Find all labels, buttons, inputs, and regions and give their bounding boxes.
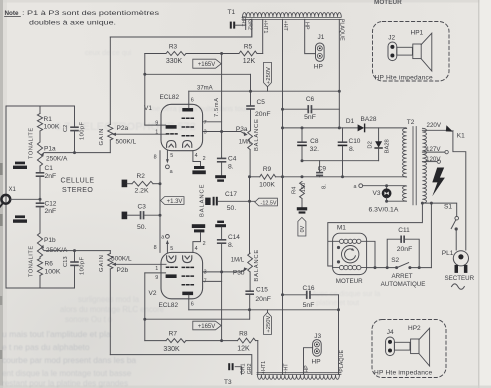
svg-text:me sera par la suite dans tous: me sera par la suite dans tous bbox=[150, 104, 249, 113]
svg-text:6: 6 bbox=[191, 97, 194, 103]
ground V1 cathode bbox=[194, 166, 204, 169]
wire heater 6.3V bottom bbox=[387, 200, 406, 202]
tube V1 envelope bbox=[161, 104, 203, 150]
svg-text:330K: 330K bbox=[166, 58, 183, 65]
wire selector to K1 drop bbox=[453, 131, 466, 251]
svg-text:D2: D2 bbox=[368, 141, 374, 148]
T1 tap GR2 bbox=[251, 19, 253, 37]
svg-text:P1a: P1a bbox=[44, 146, 56, 153]
svg-text:R6: R6 bbox=[45, 260, 54, 267]
svg-text:330K: 330K bbox=[163, 346, 180, 353]
flag +250V upper bbox=[264, 62, 272, 86]
svg-text:a: a bbox=[161, 235, 164, 241]
svg-text:C16: C16 bbox=[303, 285, 315, 292]
svg-text:C4: C4 bbox=[228, 155, 237, 162]
svg-text:+HT: +HT bbox=[283, 363, 289, 374]
V2 triode plate bbox=[166, 274, 177, 278]
V2 pin 6 lead bbox=[188, 295, 190, 310]
svg-text:T3: T3 bbox=[224, 379, 232, 386]
wire plate rail upper bbox=[189, 90, 339, 92]
svg-text:courbe par mod present dan: courbe par mod present dans les ba bbox=[2, 355, 136, 365]
svg-text:R7: R7 bbox=[169, 331, 178, 338]
svg-text:P1b: P1b bbox=[44, 237, 56, 244]
wire tap 220V bbox=[422, 129, 447, 131]
svg-text:C5: C5 bbox=[257, 99, 266, 106]
wire R3-R5 rail bbox=[145, 53, 166, 55]
resistor R4 bbox=[300, 182, 305, 199]
wire feedback lower to T3 GR2 bbox=[110, 355, 252, 375]
ground R4 bbox=[297, 207, 307, 210]
capacitor C4 bbox=[221, 156, 223, 158]
T3 tap HP to J3 bbox=[304, 348, 313, 375]
svg-text:2.2K: 2.2K bbox=[135, 188, 149, 195]
capacitor C11 box bbox=[387, 239, 400, 267]
switch S1 bbox=[455, 216, 459, 220]
selector contact K1 bbox=[446, 125, 453, 131]
flag +1.3V bbox=[161, 197, 184, 205]
T1 tap +HT1 bbox=[262, 19, 264, 53]
svg-text:+1.3V: +1.3V bbox=[167, 199, 183, 205]
svg-text:20nF: 20nF bbox=[255, 296, 271, 303]
svg-text:P2b: P2b bbox=[117, 267, 129, 274]
svg-text:: P1 à P3 sont des potentiomèt: : P1 à P3 sont des potentiomètres bbox=[22, 10, 159, 17]
diode D2 bbox=[378, 128, 380, 141]
svg-text:MOTEUR: MOTEUR bbox=[374, 0, 402, 6]
potentiometer P1a bbox=[37, 142, 42, 166]
svg-text:7: 7 bbox=[204, 120, 207, 126]
svg-text:220V: 220V bbox=[427, 122, 442, 129]
wire rectifier line D1 bbox=[283, 127, 358, 129]
svg-text:J1: J1 bbox=[318, 34, 325, 41]
svg-text:GR2: GR2 bbox=[247, 19, 253, 30]
resistor R5 bbox=[239, 51, 257, 56]
svg-text:MOTEUR: MOTEUR bbox=[336, 278, 363, 285]
svg-text:+250V: +250V bbox=[266, 67, 272, 84]
page edge shading bbox=[0, 0, 3, 388]
wire bias rail bbox=[250, 176, 260, 178]
svg-text:STEREO: STEREO bbox=[62, 187, 93, 194]
svg-text:1M/L: 1M/L bbox=[231, 258, 245, 264]
capacitor C14 bbox=[221, 227, 223, 239]
svg-text:GAIN: GAIN bbox=[99, 128, 105, 146]
svg-text:+250V: +250V bbox=[266, 316, 272, 333]
svg-text:32.: 32. bbox=[310, 146, 320, 153]
svg-text:P3b: P3b bbox=[233, 270, 245, 277]
svg-text:100K: 100K bbox=[259, 182, 275, 189]
speaker horn HP2 bbox=[394, 342, 410, 350]
V2 triode grid bbox=[167, 266, 178, 268]
capacitor C16 bbox=[283, 294, 307, 296]
V1 pentode grids bbox=[182, 117, 193, 119]
lightning bolt bbox=[432, 168, 445, 197]
svg-text:100K: 100K bbox=[44, 124, 60, 131]
svg-text:1M/L: 1M/L bbox=[239, 140, 253, 146]
ground tab lower near X1 bbox=[15, 215, 25, 218]
ground C4 bbox=[215, 175, 226, 178]
speaker box HP1 bbox=[373, 22, 450, 82]
svg-text:C8: C8 bbox=[310, 138, 319, 145]
svg-text:TONALITE: TONALITE bbox=[28, 127, 34, 159]
T3 tap GR1 bbox=[235, 367, 241, 375]
svg-text:C9: C9 bbox=[318, 165, 327, 172]
svg-text:J2: J2 bbox=[388, 34, 395, 41]
svg-text:5nF: 5nF bbox=[303, 302, 315, 309]
svg-text:J3: J3 bbox=[314, 333, 321, 340]
svg-text:C14: C14 bbox=[228, 234, 240, 241]
svg-text:C6: C6 bbox=[306, 96, 315, 103]
svg-text:50.: 50. bbox=[137, 224, 147, 231]
capacitor C12 bbox=[39, 197, 41, 203]
svg-text:5: 5 bbox=[170, 153, 173, 159]
svg-text:SECTEUR: SECTEUR bbox=[445, 275, 475, 282]
svg-text:50.: 50. bbox=[227, 205, 237, 212]
svg-text:BA28: BA28 bbox=[361, 116, 377, 123]
T1 tap HP to J1 bbox=[305, 19, 316, 53]
svg-text:PL1: PL1 bbox=[442, 250, 454, 257]
svg-text:C10: C10 bbox=[349, 138, 361, 145]
svg-text:J4: J4 bbox=[387, 329, 394, 336]
wire P2b wiper to V2 pin 1 bbox=[116, 263, 166, 265]
svg-text:8: 8 bbox=[154, 155, 157, 161]
svg-text:R8: R8 bbox=[239, 331, 248, 338]
svg-text:u mais tout l'amplitude et: u mais tout l'amplitude et pla bbox=[2, 329, 111, 339]
svg-text:5: 5 bbox=[170, 246, 173, 252]
V2 pentode plate bbox=[182, 292, 193, 296]
svg-text:C1: C1 bbox=[45, 165, 54, 172]
wire P2a wiper to V1 pin 1 bbox=[116, 133, 166, 135]
wire screen vertical V2 bbox=[221, 281, 223, 340]
resistor R3 bbox=[166, 52, 186, 56]
potentiometer P2a bbox=[109, 37, 111, 125]
wire V1 pin 9 bbox=[145, 124, 166, 126]
svg-text:ent disque la le montage: ent disque la le montage tout basse bbox=[2, 369, 132, 378]
wire doubler return line bbox=[302, 160, 379, 162]
svg-text:C11: C11 bbox=[398, 227, 410, 234]
svg-text:C15: C15 bbox=[256, 286, 268, 293]
svg-text:3: 3 bbox=[204, 270, 207, 276]
ground C14 bbox=[217, 221, 224, 223]
svg-text:+HT: +HT bbox=[282, 21, 288, 32]
potentiometer P2b bbox=[109, 251, 111, 254]
wire coupling line upper bbox=[145, 73, 251, 75]
connector J4 bbox=[386, 337, 395, 356]
wire V2 triode plate drop bbox=[144, 273, 146, 341]
svg-text:7: 7 bbox=[204, 279, 207, 285]
capacitor C10 bbox=[342, 128, 344, 141]
wire motor feed bbox=[328, 203, 423, 266]
svg-text:doubles à axe unique.: doubles à axe unique. bbox=[29, 20, 116, 27]
svg-text:sonore Ou t o: sonore Ou t o bbox=[65, 315, 113, 324]
svg-text:127V: 127V bbox=[426, 146, 441, 153]
svg-text:C17: C17 bbox=[225, 191, 237, 198]
svg-text:12K: 12K bbox=[243, 58, 256, 65]
left edge marks bbox=[0, 163, 3, 175]
capacitor C17 bbox=[205, 198, 210, 205]
svg-text:V3: V3 bbox=[373, 190, 381, 197]
transformer T1 winding bbox=[243, 12, 342, 16]
T1 grid capacitor bbox=[230, 22, 232, 29]
svg-text:C2: C2 bbox=[63, 125, 69, 132]
svg-text:HP: HP bbox=[304, 365, 310, 373]
V1 triode grid bbox=[167, 133, 178, 135]
wire tap 120V bbox=[422, 161, 437, 163]
svg-text:X1: X1 bbox=[9, 187, 17, 193]
wire motor top-right to rail bbox=[367, 241, 375, 267]
resistor R7 bbox=[166, 339, 186, 343]
wire R7-R8 rail bbox=[145, 340, 166, 342]
V1 pin 5 heater lead bbox=[166, 151, 168, 160]
wire screen vertical V1 bbox=[221, 54, 223, 158]
svg-text:BA28: BA28 bbox=[385, 139, 391, 153]
svg-text:+165V: +165V bbox=[198, 62, 216, 68]
T2 heater winding bbox=[403, 186, 407, 201]
resistor R8 bbox=[238, 338, 256, 343]
svg-text:R3: R3 bbox=[169, 44, 178, 51]
motor M1 bbox=[333, 233, 367, 274]
svg-text:T1: T1 bbox=[228, 9, 236, 16]
svg-text:20nF: 20nF bbox=[255, 111, 271, 118]
T2 primary winding bbox=[422, 128, 426, 203]
wire heater 6.3V top bbox=[363, 185, 406, 187]
svg-text:4: 4 bbox=[195, 153, 198, 159]
transformer T2 core bbox=[412, 127, 414, 205]
svg-text:9: 9 bbox=[155, 121, 158, 127]
svg-text:e t ne pas du alphabeto: e t ne pas du alphabeto bbox=[2, 342, 90, 352]
wire X1 to network bbox=[11, 198, 41, 200]
ground V2 cathode bbox=[192, 224, 205, 228]
svg-text:2: 2 bbox=[203, 156, 206, 162]
svg-text:2: 2 bbox=[203, 241, 206, 247]
svg-text:500K/L: 500K/L bbox=[116, 139, 137, 146]
svg-text:C3: C3 bbox=[138, 203, 147, 210]
flag +165V lower bbox=[193, 321, 221, 330]
svg-text:R9: R9 bbox=[263, 166, 272, 173]
svg-text:0V: 0V bbox=[300, 225, 306, 232]
V1 pentode plate bbox=[182, 108, 193, 112]
capacitor C5 and potentiometer P3a column bbox=[250, 74, 252, 105]
svg-text:12K: 12K bbox=[237, 345, 250, 352]
svg-text:HP: HP bbox=[304, 22, 310, 30]
svg-text:C13: C13 bbox=[63, 256, 69, 267]
wire input enclosure bbox=[6, 106, 75, 288]
V2 cathodes bbox=[167, 256, 176, 263]
potentiometer P3b and capacitor C15 column bbox=[249, 177, 251, 253]
capacitor C1 bbox=[39, 166, 41, 172]
svg-text:BALANCE: BALANCE bbox=[200, 184, 206, 217]
V2 pin 5 heater lead bbox=[166, 244, 168, 252]
svg-text:C12: C12 bbox=[45, 200, 57, 207]
V1 pin 6 lead bbox=[188, 91, 190, 108]
svg-text:surlignees mod la: surlignees mod la bbox=[78, 295, 140, 304]
jack J1 bbox=[316, 43, 325, 61]
svg-text:8.: 8. bbox=[228, 164, 234, 171]
capacitor C3 bbox=[122, 212, 128, 220]
svg-text:+165V: +165V bbox=[198, 324, 216, 330]
connector X1 bbox=[1, 195, 10, 204]
flag 0V bbox=[298, 217, 306, 236]
svg-text:R4: R4 bbox=[291, 186, 297, 194]
switch S2 bbox=[397, 263, 409, 268]
wire V1 triode plate drop bbox=[144, 54, 146, 126]
svg-text:4: 4 bbox=[195, 246, 198, 252]
V1 pin 7 wire bbox=[203, 121, 222, 123]
flag +165V upper bbox=[193, 59, 221, 68]
plug PL1 bbox=[453, 251, 468, 266]
capacitor C2 bbox=[74, 106, 76, 126]
V2 pin 7 wire bbox=[203, 280, 222, 282]
svg-text:Avec ce disque sur la: Avec ce disque sur la bbox=[312, 289, 380, 298]
svg-text:1: 1 bbox=[155, 129, 158, 135]
lamp V3 bbox=[386, 186, 388, 189]
svg-text:R1: R1 bbox=[44, 116, 53, 123]
svg-text:150: 150 bbox=[301, 183, 307, 193]
wire T3 PLAQUE tap bbox=[338, 295, 340, 375]
T1 tap GR1 bbox=[245, 19, 247, 29]
capacitor C9 bbox=[319, 161, 321, 172]
svg-text:HP: HP bbox=[314, 63, 323, 70]
V2 pentode grids bbox=[182, 284, 193, 286]
wire cathode chain V1-V2 bbox=[159, 151, 161, 253]
svg-text:a: a bbox=[170, 169, 173, 175]
wire tap 127V bbox=[422, 151, 444, 153]
svg-text:120V: 120V bbox=[426, 156, 441, 163]
wire tone wiper lower bbox=[42, 248, 111, 251]
V1 pin 4 pin 2 to ground bbox=[193, 151, 201, 166]
V1 pin 3 wire to P3a bbox=[203, 132, 245, 135]
connector J2 bbox=[388, 42, 397, 61]
svg-text:8.: 8. bbox=[321, 184, 327, 189]
flag -12.5V bbox=[255, 198, 278, 206]
svg-text:HP: HP bbox=[312, 359, 321, 366]
transformer T3 winding bbox=[258, 375, 340, 379]
svg-text:alors du montage RLC encor: alors du montage RLC encore bbox=[60, 305, 164, 314]
svg-text:8: 8 bbox=[154, 245, 157, 251]
resistor R1 bbox=[39, 106, 41, 114]
svg-text:-12.5V: -12.5V bbox=[261, 201, 277, 207]
svg-text:P3a: P3a bbox=[236, 126, 248, 133]
svg-text:a: a bbox=[354, 184, 357, 190]
T2 secondary top connection bbox=[405, 127, 408, 129]
ghost bleed-through text bbox=[2, 48, 380, 388]
V1 cathodes bbox=[167, 141, 176, 148]
svg-text:D1: D1 bbox=[346, 118, 355, 125]
speaker horn HP1 bbox=[397, 47, 413, 55]
T2 HT secondary winding bbox=[403, 128, 407, 177]
wire feedback upper to T1 GR2 bbox=[110, 19, 252, 37]
svg-text:5nF: 5nF bbox=[304, 114, 316, 121]
wire motor to arret rail bbox=[367, 267, 397, 269]
svg-text:100pF: 100pF bbox=[80, 122, 86, 140]
svg-text:250K/A: 250K/A bbox=[46, 156, 68, 163]
svg-text:K1: K1 bbox=[457, 133, 465, 140]
capacitor C8 bbox=[301, 128, 303, 141]
svg-text:2nF: 2nF bbox=[45, 173, 57, 180]
mains sine symbol bbox=[452, 284, 465, 289]
resistor R9 bbox=[260, 174, 276, 179]
svg-text:100pF: 100pF bbox=[80, 257, 86, 275]
svg-text:7.5mA: 7.5mA bbox=[214, 97, 220, 117]
svg-text:+HT1: +HT1 bbox=[262, 20, 268, 33]
diode D1 bbox=[358, 124, 365, 131]
svg-text:Note: Note bbox=[5, 10, 19, 17]
svg-text:1: 1 bbox=[155, 266, 158, 272]
V2 pin 4 pin 2 to ground bbox=[193, 233, 201, 253]
svg-text:PLAQUE: PLAQUE bbox=[338, 19, 344, 41]
svg-text:GAIN: GAIN bbox=[99, 254, 105, 272]
T1 tap +HT full vertical bus bbox=[282, 19, 284, 374]
capacitor C6 bbox=[283, 108, 308, 110]
V1 triode plate bbox=[166, 125, 177, 129]
capacitor C13 bbox=[74, 251, 76, 262]
svg-text:HP Hte impedance: HP Hte impedance bbox=[374, 370, 433, 377]
wire plate rail lower bbox=[189, 309, 339, 311]
svg-text:HP Hte impedance: HP Hte impedance bbox=[375, 74, 434, 81]
svg-text:AUTOMATIQUE: AUTOMATIQUE bbox=[381, 281, 426, 288]
wire primary branch to motor bbox=[430, 203, 432, 268]
svg-text:GR1: GR1 bbox=[240, 363, 246, 374]
potentiometer P1b bbox=[37, 233, 42, 257]
svg-text:ceux de ce qui: ceux de ce qui bbox=[85, 48, 132, 57]
T3 tap +HT1 bbox=[257, 341, 259, 375]
jack J3 bbox=[313, 340, 322, 357]
svg-text:ECL82: ECL82 bbox=[160, 94, 180, 101]
wire primary bottom to S1 bbox=[422, 203, 456, 216]
svg-text:3: 3 bbox=[204, 129, 207, 135]
svg-text:ECL82: ECL82 bbox=[159, 302, 179, 309]
resistor R2 bbox=[122, 180, 128, 188]
speaker box HP2 bbox=[372, 320, 446, 378]
svg-text:GR2: GR2 bbox=[247, 363, 253, 374]
svg-text:T2: T2 bbox=[407, 119, 415, 126]
svg-text:500K/L: 500K/L bbox=[111, 256, 132, 263]
svg-text:R2: R2 bbox=[137, 173, 146, 180]
svg-text:8.: 8. bbox=[349, 146, 355, 153]
wire coupling line lower bbox=[145, 318, 250, 320]
svg-text:S1: S1 bbox=[444, 204, 452, 211]
svg-text:R5: R5 bbox=[244, 44, 253, 51]
svg-text:platine et tout: platine et tout bbox=[316, 298, 359, 307]
svg-text:M1: M1 bbox=[337, 224, 346, 231]
svg-text:HP2: HP2 bbox=[408, 325, 421, 332]
flag +250V lower bbox=[267, 310, 269, 313]
svg-text:BALANCE: BALANCE bbox=[254, 249, 260, 282]
svg-text:BALANCE: BALANCE bbox=[254, 118, 260, 151]
svg-text:37mA: 37mA bbox=[197, 86, 213, 92]
T3 grid capacitor bbox=[228, 363, 230, 370]
svg-text:2nF: 2nF bbox=[45, 208, 57, 215]
wire tone wiper upper bbox=[42, 153, 111, 156]
svg-text:PLAQUE: PLAQUE bbox=[339, 350, 345, 372]
svg-text:9: 9 bbox=[155, 275, 158, 281]
svg-text:ARRET: ARRET bbox=[392, 273, 413, 280]
wire V2 pin 9 bbox=[145, 272, 166, 274]
svg-text:20nF: 20nF bbox=[397, 246, 413, 253]
svg-text:TONALITE: TONALITE bbox=[28, 245, 34, 277]
svg-text:V2: V2 bbox=[149, 290, 157, 297]
svg-text:P2a: P2a bbox=[117, 125, 129, 132]
tube V2 envelope bbox=[161, 252, 203, 298]
svg-text:HP1: HP1 bbox=[411, 30, 424, 37]
resistor R6 bbox=[39, 257, 41, 259]
svg-text:100K: 100K bbox=[45, 268, 61, 275]
svg-text:6: 6 bbox=[191, 301, 194, 307]
V2 pin 3 wire to P3b bbox=[203, 269, 245, 272]
svg-text:6.3V/0.1A: 6.3V/0.1A bbox=[369, 206, 399, 213]
svg-text:S2: S2 bbox=[391, 257, 399, 264]
svg-text:8.: 8. bbox=[228, 242, 234, 249]
svg-text:restant pour la platine de: restant pour la platine des grandes bbox=[2, 379, 128, 388]
svg-text:CELLULE: CELLULE bbox=[61, 178, 95, 185]
